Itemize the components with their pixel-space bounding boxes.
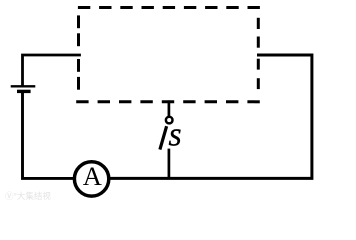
ammeter label A xyxy=(83,161,102,191)
wire: battery top to box left edge xyxy=(23,55,80,85)
switch S: open lever arm xyxy=(160,126,167,149)
switch S: bottom stub down to bottom wire xyxy=(168,149,171,180)
ammeter A1 circle xyxy=(74,162,108,196)
dashed box (hidden component): bottom edge xyxy=(76,100,260,103)
dashed box (hidden component): top edge xyxy=(78,6,260,9)
switch S: top stub from box bottom edge xyxy=(168,100,171,116)
wire: ammeter right, bottom run, up right side to box right edge xyxy=(110,55,312,178)
switch label S xyxy=(169,126,181,152)
svg-text:A: A xyxy=(83,161,102,191)
svg-text:S: S xyxy=(169,126,181,152)
watermark xyxy=(5,190,57,202)
battery (cell): short negative plate xyxy=(17,90,31,93)
battery (cell): long positive plate xyxy=(11,85,36,87)
dashed box (hidden component): right edge xyxy=(257,18,260,89)
dashed box (hidden component): left edge xyxy=(77,15,80,89)
switch S: pivot circle xyxy=(166,117,173,124)
wire: battery bottom, down left side, bottom run to ammeter xyxy=(23,93,73,178)
